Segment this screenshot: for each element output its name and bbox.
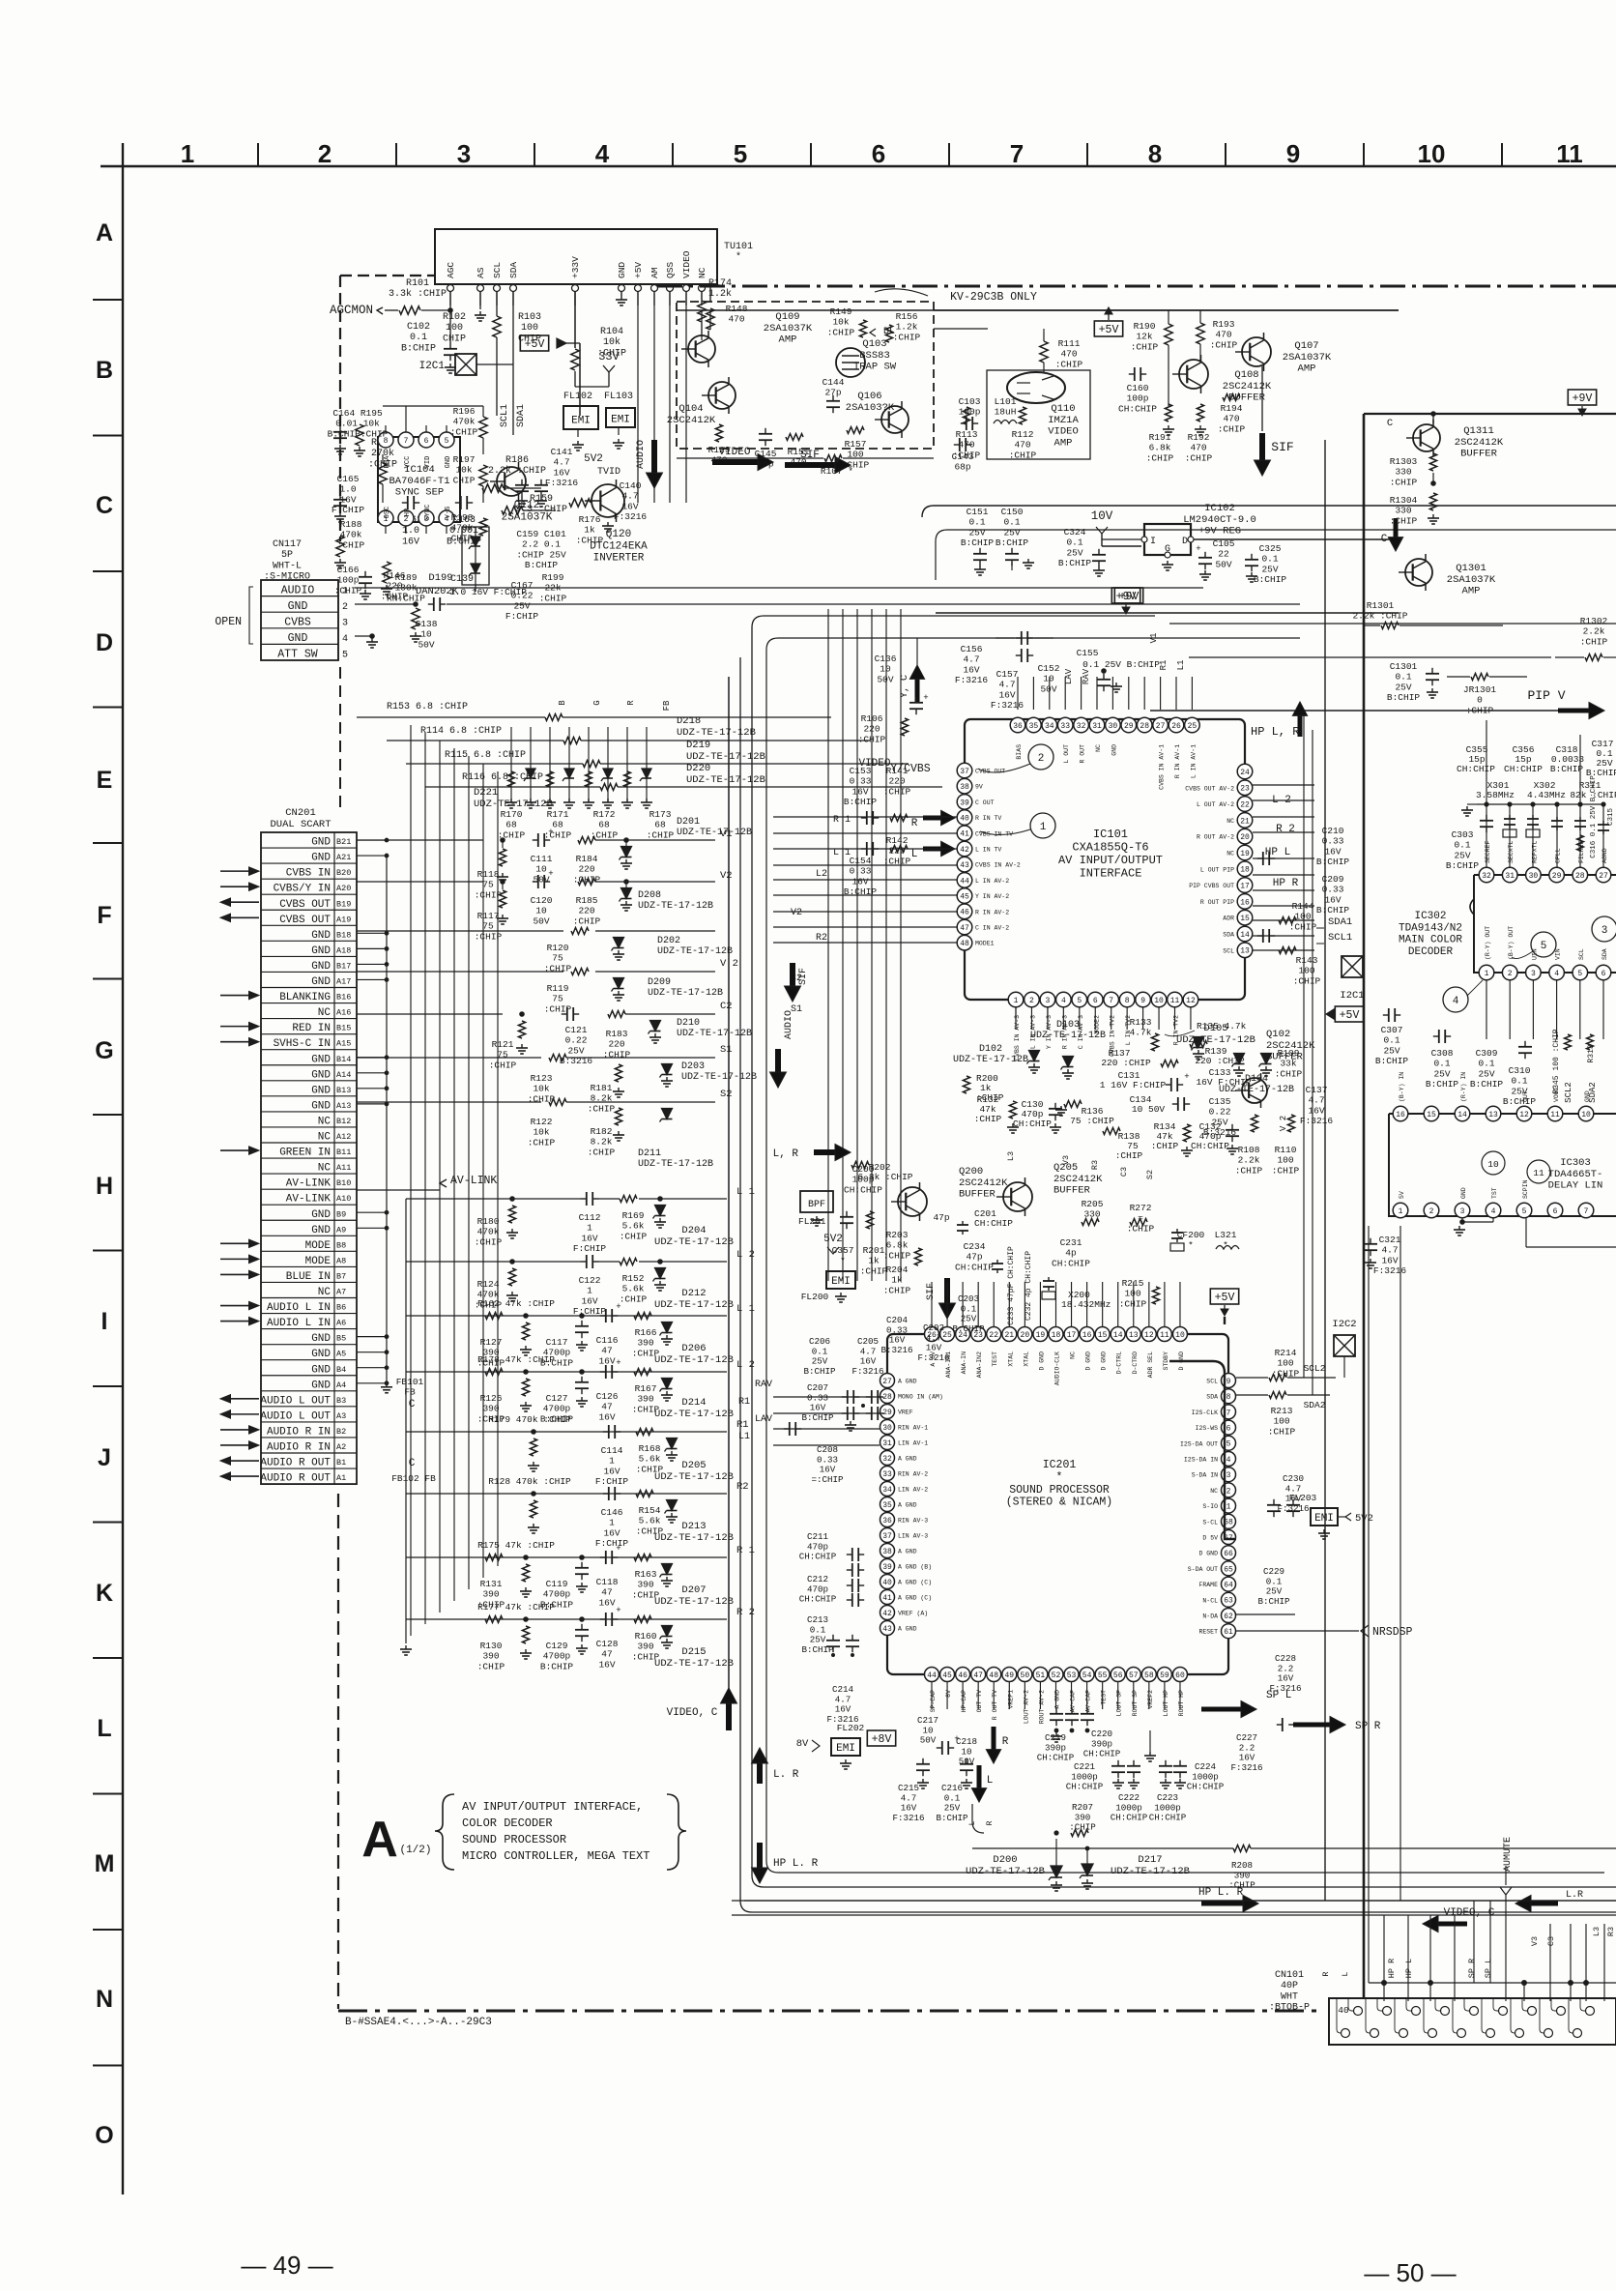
svg-text:2: 2: [1508, 970, 1513, 978]
IC101 top pin stub wires: [1017, 677, 1019, 710]
svg-text:R IN AV-1: R IN AV-1: [1174, 744, 1181, 778]
svg-text:45: 45: [942, 1671, 952, 1680]
svg-text:Y, C: Y, C: [900, 675, 910, 698]
svg-text:TDA4665T-: TDA4665T-: [1548, 1169, 1603, 1180]
svg-text:R157: R157: [845, 439, 867, 450]
chassis dash-dot boundary line top: [657, 285, 1616, 288]
CN101 connector body: [1329, 1998, 1616, 2045]
svg-text:I2S-DA OUT: I2S-DA OUT: [1180, 1440, 1218, 1447]
svg-text:2SA103?K: 2SA103?K: [846, 402, 895, 414]
svg-text:R114 6.8 :CHIP: R114 6.8 :CHIP: [420, 726, 502, 737]
svg-text:R123: R123: [531, 1073, 553, 1084]
SP R arrow: [1277, 1724, 1283, 1726]
svg-text:D214: D214: [681, 1397, 706, 1409]
svg-text:5: 5: [734, 139, 747, 168]
svg-text:S-CL: S-CL: [1202, 1519, 1218, 1526]
stub wires above crystal bus: [1486, 720, 1487, 804]
svg-text:2.2k: 2.2k: [1583, 626, 1605, 637]
svg-text:TEST: TEST: [1101, 1690, 1108, 1705]
svg-text:32: 32: [1482, 872, 1491, 881]
svg-text:1: 1: [1485, 970, 1489, 978]
IC101 bottom pin row 1-12: [1008, 992, 1024, 1007]
svg-text:75 :CHIP: 75 :CHIP: [1070, 1116, 1114, 1126]
svg-text:390: 390: [637, 1642, 653, 1652]
svg-text:4: 4: [1061, 997, 1066, 1005]
svg-text:C: C: [409, 1458, 416, 1469]
+5V boxed right: [1335, 1006, 1363, 1022]
I2C1 crossed-box: [455, 354, 476, 375]
SIF arrow at IC201: [944, 1278, 950, 1303]
IC302 body outline: [1474, 875, 1616, 973]
transistor Q104: [708, 382, 736, 409]
svg-text:IC101: IC101: [1093, 828, 1128, 841]
svg-text:+9V: +9V: [1573, 392, 1593, 405]
svg-text:1: 1: [609, 1518, 615, 1528]
svg-text:R1304: R1304: [1390, 495, 1418, 506]
svg-text:C316 0.1 25V B:CHIP: C316 0.1 25V B:CHIP: [1590, 775, 1598, 858]
svg-text:8: 8: [1125, 997, 1130, 1005]
capacitor C114 series: [603, 1431, 609, 1433]
svg-text::CHIP: :CHIP: [1580, 636, 1608, 647]
svg-text:C IN AV-2: C IN AV-2: [975, 925, 1009, 932]
svg-text:EMI: EMI: [1314, 1513, 1334, 1525]
svg-text:0.33: 0.33: [850, 866, 872, 877]
svg-text:68: 68: [654, 820, 666, 830]
svg-text:C112: C112: [579, 1212, 601, 1223]
svg-text:D207: D207: [681, 1584, 706, 1596]
connector CN201 body table: [261, 832, 357, 1484]
svg-text:100: 100: [1277, 1155, 1293, 1166]
svg-text:SDA1: SDA1: [516, 404, 527, 427]
svg-text:B9: B9: [336, 1209, 346, 1219]
svg-text:49: 49: [1004, 1671, 1014, 1680]
svg-text:G: G: [592, 700, 602, 705]
svg-text:JR1301: JR1301: [1463, 684, 1497, 695]
transistor Q205: [1003, 1182, 1032, 1211]
resistor R147 shunt with ground: [412, 608, 419, 629]
svg-text:C308: C308: [1431, 1048, 1454, 1059]
svg-text:L2: L2: [816, 869, 827, 880]
svg-text:WHT-L: WHT-L: [273, 561, 302, 571]
svg-text:I: I: [101, 1308, 108, 1335]
callout circle 5: [1531, 932, 1556, 957]
svg-text:DUAL SCART: DUAL SCART: [270, 819, 331, 830]
svg-text:470: 470: [1014, 440, 1030, 450]
svg-text:16: 16: [1082, 1331, 1092, 1340]
svg-text:ROUT SP: ROUT SP: [1132, 1690, 1139, 1716]
svg-text:CH:CHIP: CH:CHIP: [1037, 1753, 1075, 1763]
svg-text:I: I: [1150, 537, 1156, 547]
svg-text:RIN AV-1: RIN AV-1: [898, 1425, 928, 1432]
ground stub below CN201 bus: [405, 1199, 407, 1643]
svg-text:7: 7: [1226, 1409, 1231, 1417]
svg-text:1: 1: [1014, 997, 1019, 1005]
svg-text:L: L: [987, 1775, 994, 1787]
svg-text:R1302: R1302: [1580, 616, 1608, 626]
svg-text:CVBS OUT: CVBS OUT: [279, 915, 331, 926]
svg-text:Q120: Q120: [606, 529, 631, 540]
svg-text:A13: A13: [336, 1101, 351, 1111]
svg-text:BSS83: BSS83: [859, 350, 890, 362]
svg-text:41: 41: [882, 1594, 892, 1603]
svg-text:6.8k: 6.8k: [886, 1240, 909, 1251]
svg-text:5V2: 5V2: [1355, 1513, 1373, 1525]
svg-text:R 2: R 2: [1276, 824, 1295, 835]
svg-text:CH:CHIP: CH:CHIP: [1111, 1813, 1148, 1823]
HP L R right arrow: [1201, 1902, 1243, 1906]
svg-text:ROUT HP: ROUT HP: [1178, 1690, 1185, 1716]
wire IC102 output rail: [1194, 538, 1399, 540]
main +5V horizontal rail: [934, 309, 1399, 311]
IC201 right pin column 9-61: [1222, 1374, 1236, 1388]
svg-text:D210: D210: [677, 1018, 700, 1029]
svg-text:GND: GND: [311, 853, 331, 864]
ladder row V1 wire: [357, 839, 483, 841]
svg-text:R169: R169: [622, 1210, 645, 1221]
svg-text:R171: R171: [547, 809, 569, 820]
svg-text:220: 220: [888, 776, 905, 787]
svg-text:C146: C146: [601, 1507, 623, 1518]
wire Q107 collector to SIF: [1261, 366, 1263, 431]
svg-text:220: 220: [578, 864, 594, 875]
svg-text:D212: D212: [681, 1288, 706, 1299]
svg-text:AGND: AGND: [1602, 848, 1608, 863]
resistor R159: [502, 507, 523, 514]
svg-text::CHIP: :CHIP: [603, 1049, 631, 1060]
svg-text:R214: R214: [1275, 1348, 1297, 1358]
svg-text:R170: R170: [501, 809, 523, 820]
svg-text:20: 20: [1021, 1331, 1030, 1340]
svg-text:BIAS: BIAS: [1016, 744, 1023, 760]
svg-text:C3: C3: [1546, 1936, 1556, 1946]
svg-text:FL203: FL203: [1289, 1493, 1317, 1503]
svg-text:CH:CHIP: CH:CHIP: [1052, 1258, 1090, 1268]
svg-text:R110: R110: [1275, 1145, 1297, 1155]
svg-text:R: R: [626, 700, 636, 706]
svg-text:R IN AV-2: R IN AV-2: [975, 909, 1009, 915]
svg-text:GND: GND: [445, 456, 452, 469]
svg-text:L 1: L 1: [833, 848, 851, 858]
resistor R129: [715, 424, 722, 442]
svg-text:C151: C151: [967, 507, 989, 517]
svg-text:B:CHIP: B:CHIP: [540, 1661, 574, 1671]
svg-text:R196: R196: [453, 406, 476, 417]
svg-text:A7: A7: [336, 1288, 346, 1297]
svg-text:10 50V: 10 50V: [1132, 1104, 1166, 1115]
resistor R162 47k series: [485, 1313, 503, 1320]
zener diode D215: [662, 1626, 673, 1637]
svg-text::CHIP: :CHIP: [381, 591, 409, 601]
vertical bus wires center: [827, 609, 829, 1281]
transistor Q110 video amp oval: [1007, 372, 1065, 403]
audio row net L 1 wire: [406, 1198, 581, 1200]
caps under C318 C317: [1556, 817, 1558, 821]
svg-text:470: 470: [710, 455, 727, 466]
svg-text:1.0 16V F:CHIP: 1.0 16V F:CHIP: [449, 587, 527, 597]
svg-text:5.6k: 5.6k: [622, 1284, 645, 1294]
svg-text:S2: S2: [1145, 1170, 1155, 1179]
wires IC302 bottom: [1486, 980, 1487, 1039]
svg-text:OUT: OUT: [1522, 1090, 1529, 1102]
svg-text:CXA1855Q-T6: CXA1855Q-T6: [1072, 840, 1148, 854]
svg-text:SDA: SDA: [508, 262, 519, 278]
svg-text:220: 220: [578, 906, 594, 916]
svg-text:F:CHIP: F:CHIP: [595, 1538, 629, 1549]
svg-text:AUDIO: AUDIO: [281, 584, 315, 596]
IC201 body outline: [887, 1334, 1228, 1674]
Y C up arrow: [915, 679, 920, 702]
svg-text:D217: D217: [1138, 1854, 1162, 1866]
svg-text::CHIP: :CHIP: [893, 332, 921, 342]
svg-text:AV INPUT/OUTPUT: AV INPUT/OUTPUT: [1058, 854, 1163, 867]
svg-text:68p: 68p: [757, 459, 773, 470]
svg-text:5.6k: 5.6k: [639, 1516, 661, 1526]
svg-text:32: 32: [882, 1455, 892, 1464]
page bottom dash-dot separator: [338, 2010, 1324, 2013]
svg-text:C: C: [1381, 534, 1388, 545]
svg-text:390: 390: [482, 1589, 499, 1600]
svg-text:BLANKING: BLANKING: [279, 992, 331, 1003]
svg-text:IMZ1A: IMZ1A: [1048, 415, 1079, 426]
svg-text:40: 40: [960, 814, 969, 823]
svg-text::CHIP: :CHIP: [1275, 1068, 1303, 1079]
svg-text:48: 48: [960, 940, 969, 948]
svg-text:BPF: BPF: [808, 1200, 825, 1210]
svg-text:2: 2: [1226, 1487, 1231, 1496]
zener diode cluster and grounds: [510, 727, 512, 802]
svg-text:GND: GND: [311, 930, 331, 942]
resistor R104 wire from +33V pin: [574, 291, 576, 348]
svg-text:25V: 25V: [1383, 1045, 1400, 1056]
input arrow CN201 row B16: [220, 995, 249, 997]
VIDEO right arrow top: [712, 459, 758, 465]
svg-text:14: 14: [1457, 1111, 1467, 1119]
capacitor C118 series: [600, 1556, 606, 1558]
svg-text:C126: C126: [596, 1391, 619, 1402]
svg-text:O: O: [95, 2122, 113, 2149]
svg-text:C140: C140: [620, 480, 642, 491]
svg-text:S-DA OUT: S-DA OUT: [1188, 1566, 1218, 1573]
svg-text:FB: FB: [662, 700, 672, 711]
C signal down arrow right: [1394, 518, 1399, 538]
svg-text:25V: 25V: [1454, 850, 1470, 860]
svg-text:GND: GND: [311, 1349, 331, 1360]
svg-text:4: 4: [1554, 970, 1559, 978]
svg-text:11: 11: [1550, 1111, 1560, 1119]
svg-text:R205: R205: [1082, 1199, 1104, 1209]
svg-text:0.1: 0.1: [1395, 672, 1411, 683]
svg-text:1.2k: 1.2k: [896, 322, 918, 333]
zener diode D212: [655, 1268, 666, 1279]
zener diode D202: [614, 938, 624, 948]
svg-text:VREF (A): VREF (A): [898, 1611, 928, 1617]
svg-text:4: 4: [342, 634, 348, 645]
svg-text:UDZ-TE-17-12B: UDZ-TE-17-12B: [638, 1159, 713, 1170]
svg-text::CHIP: :CHIP: [1218, 423, 1246, 434]
svg-text:30: 30: [1109, 722, 1118, 731]
+5V boxed label: [520, 335, 548, 351]
svg-text:TDA9143/N2: TDA9143/N2: [1399, 922, 1462, 934]
svg-text:CH:CHIP: CH:CHIP: [1149, 1813, 1187, 1823]
svg-text:LIN AV-2: LIN AV-2: [898, 1487, 928, 1494]
resistor R194: [1223, 394, 1240, 401]
svg-text:R154: R154: [639, 1505, 661, 1516]
svg-text:A21: A21: [336, 853, 351, 862]
svg-text:R186: R186: [505, 455, 529, 466]
transistor Q103 mosfet: [836, 348, 865, 377]
svg-text:7: 7: [1109, 997, 1113, 1005]
svg-text:SIF: SIF: [1271, 440, 1293, 454]
svg-text:2: 2: [318, 139, 332, 168]
svg-text:63: 63: [1224, 1597, 1233, 1606]
zener diode D209: [614, 978, 624, 989]
svg-text:B14: B14: [336, 1055, 351, 1064]
svg-text:5P: 5P: [281, 550, 293, 561]
EMI filter FL103: [606, 408, 635, 427]
svg-text:+33V: +33V: [570, 256, 581, 278]
IC102 regulator box: [1144, 524, 1191, 555]
svg-text:50V: 50V: [959, 1757, 975, 1767]
svg-text:NC: NC: [1226, 851, 1234, 857]
IC201 bottom pin stub wires: [931, 1682, 933, 1709]
ground at CN117 pin4: [355, 635, 372, 637]
svg-text:35: 35: [882, 1501, 892, 1510]
svg-text:D206: D206: [681, 1343, 706, 1354]
audio row net L 2 wire: [406, 1371, 727, 1373]
zener diode D201: [621, 847, 632, 857]
svg-text:D202: D202: [657, 936, 680, 946]
svg-text:CH:CHIP: CH:CHIP: [799, 1594, 837, 1605]
transistor Q120: [592, 484, 624, 517]
svg-text:50V: 50V: [1215, 559, 1231, 569]
svg-text:F:CHIP: F:CHIP: [573, 1243, 607, 1254]
svg-text:C102: C102: [407, 322, 430, 333]
svg-text:B-#SSAE4.<...>-A..-29C3: B-#SSAE4.<...>-A..-29C3: [345, 2017, 492, 2028]
SCL2 line: [1236, 1377, 1268, 1379]
svg-text:+: +: [923, 693, 928, 703]
svg-text:CN117: CN117: [273, 539, 302, 550]
svg-text:D218: D218: [677, 715, 701, 727]
svg-text:LM2940CT-9.0: LM2940CT-9.0: [1183, 514, 1256, 526]
svg-text:0.33: 0.33: [1322, 836, 1344, 847]
svg-text:390: 390: [482, 1651, 499, 1662]
svg-text:COLOR DECODER: COLOR DECODER: [462, 1816, 553, 1830]
svg-text:UDZ-TE-17-12B: UDZ-TE-17-12B: [648, 988, 723, 999]
svg-text:R131: R131: [480, 1579, 503, 1589]
svg-text:R104: R104: [600, 327, 623, 337]
svg-text:6: 6: [1602, 970, 1606, 978]
svg-text:A9: A9: [336, 1225, 346, 1235]
zener diode D207: [662, 1564, 673, 1575]
resistor R208 label: [1233, 1846, 1251, 1852]
svg-text:Q110: Q110: [1051, 403, 1075, 415]
svg-text:S2: S2: [720, 1089, 733, 1100]
svg-text:Q104: Q104: [678, 403, 703, 415]
svg-text:44: 44: [927, 1671, 937, 1680]
svg-text:B:CHIP: B:CHIP: [1257, 1596, 1290, 1607]
svg-text:D209: D209: [648, 977, 671, 988]
svg-text:43: 43: [960, 861, 969, 870]
svg-text:BA7046F-T1: BA7046F-T1: [389, 476, 449, 487]
svg-text:66: 66: [1224, 1550, 1233, 1558]
resistor R186: [482, 484, 504, 492]
svg-text:B:CHIP: B:CHIP: [401, 343, 436, 354]
ground left of crystal row: [1466, 806, 1468, 810]
svg-text:SCL: SCL: [1206, 1379, 1218, 1385]
svg-text:CVBS OUT AV-2: CVBS OUT AV-2: [1185, 785, 1234, 792]
svg-text:R153 6.8 :CHIP: R153 6.8 :CHIP: [387, 702, 468, 712]
svg-text:59: 59: [1160, 1671, 1169, 1680]
svg-text:29: 29: [882, 1409, 892, 1417]
svg-text:A GND: A GND: [898, 1626, 917, 1633]
svg-text:16V: 16V: [1381, 1255, 1398, 1265]
svg-text:100: 100: [1273, 1416, 1289, 1427]
svg-text:47: 47: [973, 1671, 983, 1680]
svg-text:0.1: 0.1: [1433, 1059, 1450, 1069]
svg-text:15: 15: [1240, 915, 1250, 923]
svg-text:D215: D215: [681, 1646, 706, 1658]
svg-text::CHIP: :CHIP: [1069, 1822, 1096, 1833]
svg-text:CH:CHIP: CH:CHIP: [1457, 764, 1495, 774]
svg-text:68p: 68p: [954, 462, 970, 473]
svg-text:100: 100: [446, 323, 463, 334]
svg-text:R167: R167: [635, 1383, 657, 1394]
svg-text:4700p: 4700p: [543, 1651, 571, 1662]
svg-text:D103: D103: [1056, 1020, 1080, 1031]
svg-text:ANA-IN: ANA-IN: [961, 1351, 967, 1375]
svg-text:39: 39: [960, 799, 969, 807]
svg-text:C128: C128: [596, 1639, 619, 1649]
svg-text:D219: D219: [686, 740, 710, 751]
svg-text:R OUT: R OUT: [1080, 744, 1086, 764]
svg-text:75: 75: [482, 880, 494, 890]
border frame ruler lines: [101, 165, 1616, 167]
svg-text:R111: R111: [1058, 338, 1081, 349]
svg-text:2: 2: [342, 602, 348, 613]
zener diode D213: [667, 1500, 678, 1511]
svg-text:C OUT: C OUT: [975, 799, 995, 806]
svg-text:MODE: MODE: [305, 1256, 332, 1267]
svg-text:Q106: Q106: [857, 391, 881, 402]
svg-text:C114: C114: [601, 1445, 623, 1456]
transistor Q200: [898, 1187, 927, 1216]
IC201 left pin column 27-43: [880, 1374, 895, 1388]
svg-text:DTC124EKA: DTC124EKA: [590, 540, 648, 552]
svg-text:C145: C145: [755, 449, 777, 459]
resistor R126 shunt: [522, 1379, 529, 1396]
svg-text:FB102 FB: FB102 FB: [391, 1473, 436, 1484]
svg-text:VID: VID: [424, 456, 432, 469]
svg-text:47p: 47p: [933, 1212, 949, 1223]
svg-text:TRAP SW: TRAP SW: [853, 362, 897, 373]
input arrow CN201 row B20: [220, 870, 249, 872]
svg-text:C: C: [409, 1399, 416, 1410]
svg-text:B:CHIP: B:CHIP: [803, 1366, 836, 1377]
resistor R102: [479, 291, 481, 309]
svg-text:C357: C357: [832, 1245, 854, 1256]
svg-text:F:CHIP: F:CHIP: [573, 1306, 607, 1317]
svg-text:C321: C321: [1379, 1235, 1401, 1245]
svg-text:R190: R190: [1134, 321, 1156, 332]
svg-text:GND: GND: [617, 262, 627, 278]
svg-text:R119: R119: [547, 983, 569, 994]
BPF box FL201: [800, 1191, 833, 1212]
svg-text:AMP: AMP: [1462, 586, 1481, 597]
svg-text:28: 28: [1140, 722, 1149, 731]
svg-text:3.3k :CHIP: 3.3k :CHIP: [389, 288, 447, 300]
svg-text:34: 34: [882, 1486, 892, 1495]
svg-text:B:CHIP: B:CHIP: [996, 538, 1029, 548]
